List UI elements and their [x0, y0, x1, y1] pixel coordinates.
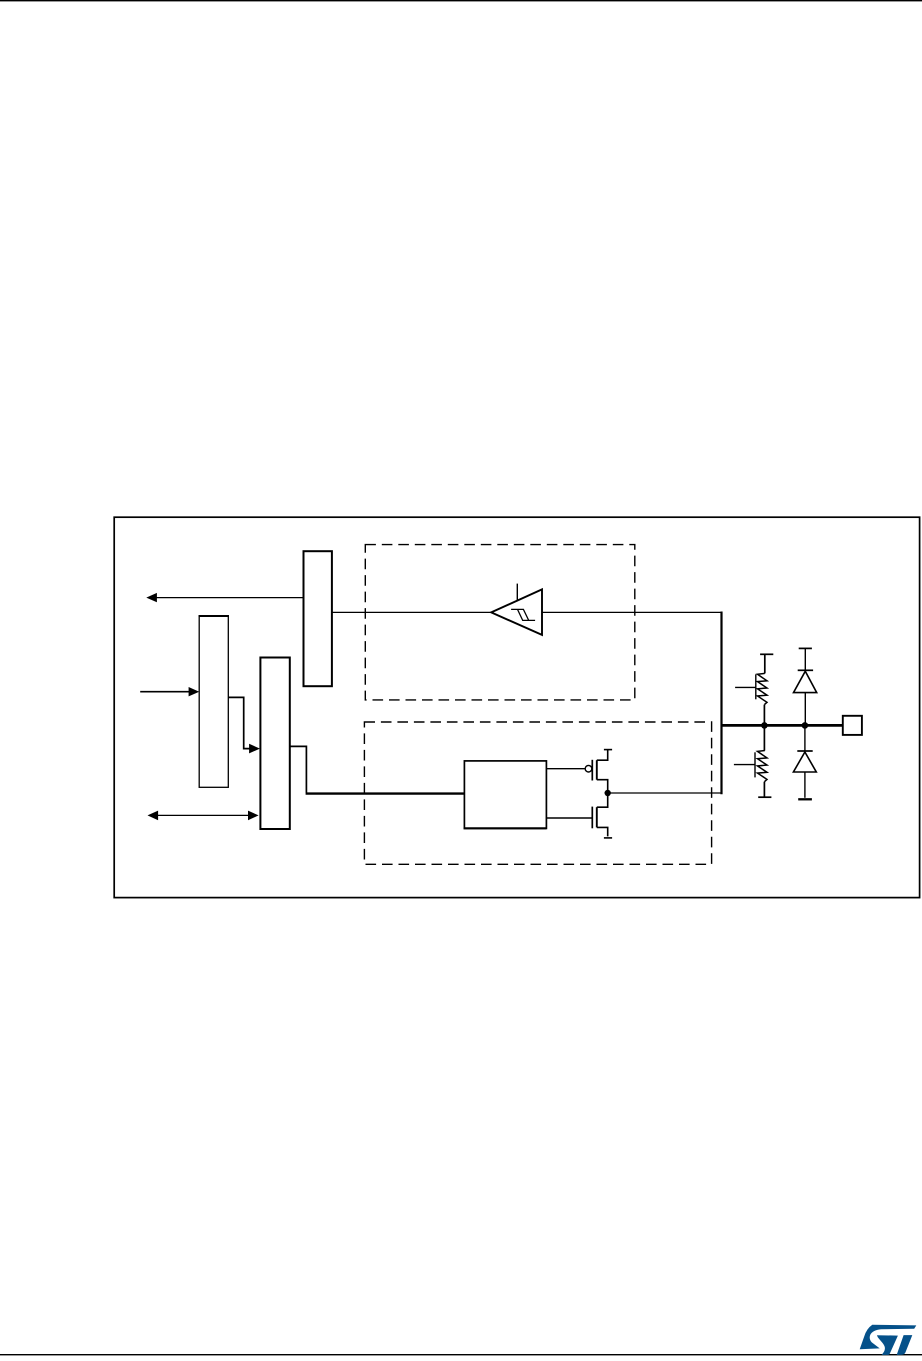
wire bidirectional arrow A3 — [148, 811, 259, 821]
diode D2 to VSS — [793, 725, 816, 799]
transistor Q2 N-MOS — [592, 793, 612, 838]
wire data-out arrow A1 — [146, 593, 303, 602]
register block REG1 top edge — [199, 615, 229, 617]
register block REG3 — [304, 551, 332, 686]
wire thick output drive — [306, 792, 465, 794]
schmitt enable stub — [516, 584, 518, 601]
output buffer block U2 — [464, 761, 546, 829]
diode D1 to VDD — [794, 648, 817, 725]
register block REG2 — [260, 658, 289, 830]
top page rule — [0, 0, 922, 1]
wire pad net horizontal — [721, 724, 843, 727]
resistor R2 pull-down — [734, 725, 772, 797]
transistor Q1 P-MOS — [592, 750, 612, 793]
wire output to pad column — [608, 792, 722, 794]
node junction J2 — [802, 722, 809, 729]
wire P-gate — [546, 768, 585, 770]
input-stage dashed box — [365, 545, 635, 700]
wire data-in arrow A2 — [140, 687, 199, 696]
node junction J1 — [761, 722, 768, 729]
node push-pull output — [605, 790, 611, 796]
resistor R1 pull-up — [735, 654, 773, 725]
wire N-gate — [546, 817, 592, 819]
output buffer thick bottom edge — [464, 827, 547, 829]
bottom page rule — [0, 1354, 922, 1355]
figure frame — [114, 517, 919, 897]
pad square — [843, 716, 862, 735]
ST logo — [860, 1325, 917, 1355]
wire input path — [332, 611, 722, 613]
schmitt trigger U1 — [491, 589, 542, 635]
wire REG2 to output buffer — [290, 746, 306, 792]
output-stage dashed box — [364, 722, 711, 864]
inversion bubble — [585, 765, 592, 772]
wire pad column vertical — [720, 612, 722, 795]
register block REG1 — [199, 616, 228, 788]
schmitt hysteresis mark — [511, 609, 535, 620]
wire step arrow A4 from REG1 to REG2 — [228, 697, 260, 753]
